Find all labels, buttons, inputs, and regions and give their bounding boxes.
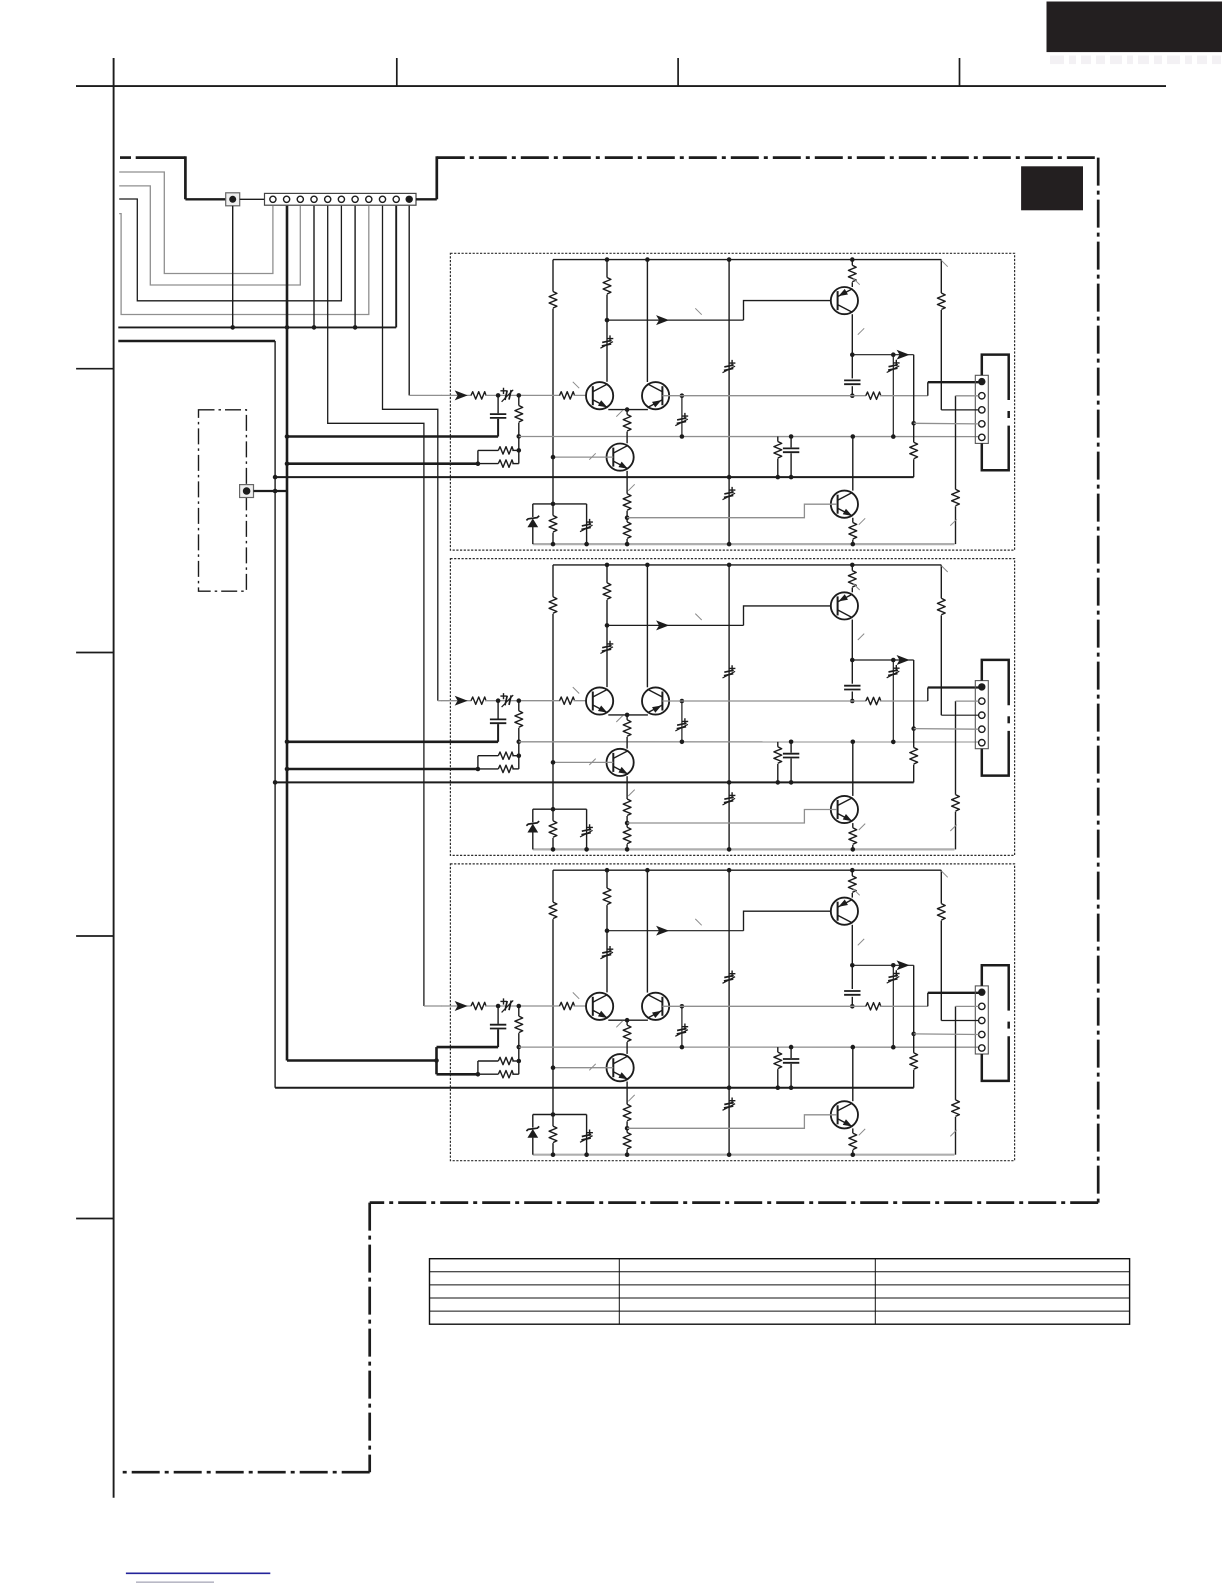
B2 junction VR2 bottom — [680, 740, 685, 745]
B2 thick wire to connector pin1 — [928, 686, 982, 688]
B2 zener diode D1 — [532, 809, 534, 822]
transistor Q1 block3 — [586, 993, 613, 1020]
B3 junction mid rail R16 — [776, 1085, 781, 1090]
B2 junction on pin2 bus (lower) — [285, 767, 290, 772]
B2 junction C2 bottom on output line — [850, 699, 855, 704]
B1 junction emitters — [625, 407, 630, 412]
B1 output connector pin1 (filled) — [978, 378, 985, 385]
left registration tick 3 — [76, 935, 114, 937]
B1 thermistor TH4 riser — [892, 355, 894, 437]
B1 bottom negative rail — [533, 543, 955, 545]
B3 resistor R9 (feedback upper) — [498, 1057, 513, 1064]
B1 junction Q5 base node — [625, 515, 630, 520]
B2 junction mid rail bias col — [727, 780, 732, 785]
pin9 vertical wire — [383, 206, 438, 701]
B2 rail junction Q5 col — [851, 847, 856, 852]
B3 output connector pin3 — [979, 1017, 985, 1023]
B2 resistor R3 (Q4 emitter) — [851, 565, 853, 571]
pin2 main vertical bus wire (thick) — [286, 206, 289, 1061]
B3 junction R6/feedback line — [517, 1045, 522, 1050]
B3 junction VR2 bottom — [680, 1045, 685, 1050]
B3 junction mid rail C3 — [789, 1085, 794, 1090]
B2 wire Q3 emitter down — [626, 776, 628, 799]
B2 wire VAS to lower network — [913, 660, 915, 748]
wire from outline to terminal box — [185, 198, 225, 200]
supply bus vertical wire (mid-rail feed) — [274, 341, 276, 1088]
B1 trimmer VR2 riser — [681, 396, 683, 437]
B2 resistor R14 (output series) — [866, 697, 881, 704]
transistor Q5 block1 — [831, 491, 858, 518]
B3 print artifacts (small ticks) — [573, 871, 957, 1136]
B2 junction Q1 collector / mirror line — [605, 623, 610, 628]
B1 junction input/C1 — [496, 393, 501, 398]
B1 output connector pin4 — [979, 421, 985, 427]
B1 wire pin3 to supply column — [941, 409, 978, 411]
B1 rail junction R8 col — [551, 542, 556, 547]
B1 thermistor TH3 lower on bias chain — [729, 487, 736, 493]
B2 input signal wire with arrow — [441, 700, 471, 702]
B2 junction R6/feedback line — [517, 739, 522, 744]
B3 junction arrow/thermistor col — [891, 963, 896, 968]
B3 resistor R7 (base stopper) — [560, 1002, 575, 1009]
transistor Q3 block2 — [607, 749, 634, 776]
B2 wire pin3 to supply column — [941, 714, 978, 716]
B1 zobel capacitor C3 — [790, 437, 792, 448]
B3 thermistor TH4 riser — [892, 965, 894, 1047]
B3 junction mid rail bias col — [727, 1085, 732, 1090]
B2 junction box top — [551, 807, 556, 812]
board outline dash-dot bottom left edge — [118, 1471, 370, 1474]
B2 resistor R17 (Q5 emitter) — [852, 823, 854, 828]
B3 junction Q3 base / R1 column — [551, 1065, 556, 1070]
B1 feedback/speaker sense line to pin5 — [519, 436, 982, 438]
B2 resistor R1 (left supply dropper) — [552, 565, 554, 597]
B1 wire Q2 collector to rail — [646, 260, 648, 382]
B1 resistor R13 (Q3 emitter lower) — [623, 522, 631, 539]
B1 rail junction Q5 col — [851, 542, 856, 547]
board outline dash-dot top edge — [437, 156, 1098, 159]
B3 wire pin4 to VAS column — [914, 1033, 979, 1036]
B1 wire current-mirror with arrow — [607, 319, 744, 321]
B1 resistor R1 (left supply dropper) — [552, 260, 554, 292]
B3 feedback left node riser — [477, 1061, 479, 1074]
top registration tick 3 — [959, 58, 961, 86]
B1 wire R5 to Q1 base — [485, 394, 560, 396]
wire terminal box to connector CN1 — [240, 198, 265, 200]
B1 wire Q3 base from left column — [553, 456, 613, 458]
B1 capacitor C2 (Q4 compensation) — [851, 355, 853, 379]
B3 wire mirror step up to Q4 base — [744, 911, 838, 931]
B3 speaker return bracket (thick) — [982, 965, 1009, 1010]
B3 protection box top wire — [533, 1114, 587, 1116]
wire pin6 to left edge (nested loop 3) — [119, 199, 341, 301]
B2 junction Q3 base / R1 column — [551, 760, 556, 765]
B3 rail junction Q4 col — [850, 868, 855, 873]
B1 junction TH4 bottom — [891, 434, 896, 439]
B1 junction C2 bottom on output line — [850, 393, 855, 398]
B1 junction on pin2 bus (lower) — [285, 461, 290, 466]
B2 junction arrow/thermistor col — [891, 658, 896, 663]
B3 resistor R8 (in box column) — [549, 1126, 557, 1142]
B1 junction mid rail bias col — [727, 475, 732, 480]
B1 thick feedback wire from bus (upper) — [287, 435, 498, 438]
B3 junction feedback left node — [476, 1072, 481, 1077]
pin11 vertical wire (input ch1) — [408, 206, 410, 396]
B3 resistor R18 (pin2 shunt) — [955, 1006, 957, 1100]
B1 wire Q2 base lead — [662, 395, 682, 397]
B1 rail junction bias col — [727, 542, 732, 547]
B3 wire Q3 emitter down — [626, 1082, 628, 1105]
bus junction at pin2 column — [285, 325, 290, 330]
amplifier block 3 dashed border — [450, 864, 1014, 1161]
B2 output connector pin5 — [979, 740, 985, 746]
B2 junction feedback left node — [476, 767, 481, 772]
B2 wire Q3 base from left column — [553, 761, 613, 763]
B2 trimmer VR2 riser — [681, 701, 683, 742]
B3 junction emitters — [625, 1018, 630, 1023]
B3 wire current-mirror with arrow — [607, 930, 744, 932]
connector CN1 pin 3 — [297, 196, 303, 202]
B2 wire R5 to Q1 base — [485, 700, 560, 702]
amplifier block 1 dashed border — [450, 253, 1014, 550]
B1 resistor R8 (in box column) — [549, 516, 557, 533]
junction J2 wire / mid-rail feed — [273, 489, 278, 494]
B1 mid output rail (thick) — [275, 476, 914, 478]
B2 wire current-mirror with arrow — [607, 624, 744, 626]
B1 rail junction Q2 col — [645, 257, 650, 262]
revision table column line 2 — [874, 1259, 876, 1325]
B3 junction C3 top — [789, 1045, 794, 1050]
B2 resistor R15 (VAS load) — [910, 748, 918, 765]
wire pin1 to left edge (nested loop 1) — [119, 172, 273, 274]
B3 junction Q1 collector / mirror line — [605, 928, 610, 933]
B3 junction TH4 bottom — [891, 1045, 896, 1050]
transistor Q5 block2 — [831, 796, 858, 823]
B2 wire mirror step up to Q4 base — [744, 606, 838, 626]
B2 resistor R7 (base stopper) — [560, 697, 575, 704]
B2 rail junction bias col — [727, 847, 732, 852]
B2 trimmer VR1 on input node — [500, 693, 506, 699]
B2 wire Q5 collector up to sense line — [852, 741, 854, 796]
B2 junction Q5 collector on sense line — [851, 740, 856, 745]
B2 thermistor TH4 riser — [892, 660, 894, 742]
B2 protection box top wire — [533, 808, 587, 810]
ground bus horizontal wire — [118, 326, 396, 328]
B1 junction Q3 base / R1 column — [551, 455, 556, 460]
B1 wire pin2 to shunt column — [956, 395, 979, 397]
block2 input corner wire from pin9 — [438, 700, 442, 702]
B1 wire pin4 to VAS column — [914, 422, 979, 425]
B3 input signal wire with arrow — [441, 1005, 471, 1007]
B2 junction C3 top — [789, 740, 794, 745]
B3 zobel resistor R16 — [777, 1047, 779, 1052]
B2 resistor R10 (feedback lower) — [498, 765, 513, 772]
B3 VAS output wire with arrow — [852, 964, 913, 966]
B1 thick feedback wire from bus (lower) — [287, 462, 478, 465]
left registration tick 2 — [76, 652, 114, 654]
B2 bias chain vertical wire — [728, 565, 730, 850]
B2 output line to pin1 jog — [880, 700, 928, 702]
B2 wire pin4 to VAS column — [914, 728, 979, 731]
connector CN1 pin 9 — [379, 196, 385, 202]
B1 resistor R3 (Q4 emitter) — [851, 260, 853, 266]
B1 junction feedback left node — [476, 461, 481, 466]
B1 capacitor C1 (input) — [497, 395, 499, 413]
transistor Q1 block1 — [586, 382, 613, 409]
B1 resistor R15 (VAS load) — [910, 442, 918, 459]
connector CN1 pin 8 — [366, 196, 372, 202]
page border vertical rule left — [113, 58, 115, 1498]
pin5 vertical wire — [328, 206, 424, 1006]
B3 resistor R12 (Q3 emitter upper) — [623, 1104, 631, 1120]
B2 resistor R9 (feedback upper) — [498, 752, 513, 759]
B2 resistor R18 (pin2 shunt) — [955, 701, 957, 795]
B1 protection box top wire — [533, 503, 587, 505]
B2 junction on pin2 bus (upper) — [285, 740, 290, 745]
B2 thermistor TH2 upper on bias chain — [729, 665, 736, 671]
B2 resistor R5 (input series) — [471, 697, 486, 704]
B3 output line Q2 base to R14 — [682, 1005, 866, 1007]
B3 junction Q5 base node — [625, 1126, 630, 1131]
B1 resistor R6 (input shunt) — [518, 395, 520, 405]
B1 wire Q5 base step from Q3 emitter — [627, 504, 837, 518]
B2 resistor R4 (right supply column) — [940, 565, 942, 598]
B3 jog up to pin1 wire — [927, 993, 929, 1007]
sub-board dash-dot outline box — [199, 410, 247, 591]
B3 rail junction Q3 col — [625, 1152, 630, 1157]
B1 junction R6/feedback line — [517, 434, 522, 439]
block3 input corner wire from pin5 — [424, 1005, 442, 1007]
B1 resistor R11 (emitter tail) — [626, 410, 628, 415]
B1 trimmer VR3 — [586, 504, 588, 544]
B3 mid output rail (thick) — [275, 1087, 914, 1089]
B2 zobel capacitor C3 — [790, 742, 792, 753]
B3 capacitor C2 (Q4 compensation) — [851, 965, 853, 989]
B3 rail junction R8 col — [551, 1152, 556, 1157]
B3 wire VAS to lower network — [913, 965, 915, 1053]
B3 resistor R4 (right supply column) — [940, 870, 942, 903]
B3 resistor R13 (Q3 emitter lower) — [623, 1133, 631, 1149]
B1 wire Q4 collector down — [851, 314, 853, 355]
small black label box — [1022, 167, 1083, 210]
B1 rail junction VR3 col — [584, 542, 589, 547]
board outline dash-dot left drop — [368, 1203, 371, 1473]
B2 rail junction Q2 col — [645, 563, 650, 568]
B2 resistor R12 (Q3 emitter upper) — [623, 799, 631, 816]
transistor Q3 block1 — [607, 444, 634, 471]
B2 junction pin4 line — [911, 726, 916, 731]
board outline corner up right of connector — [435, 156, 438, 199]
B3 trimmer VR3 — [586, 1115, 588, 1155]
B2 wire Q5 base step from Q3 emitter — [627, 810, 837, 824]
terminal box J1 (left of connector) — [226, 193, 240, 206]
B2 rail junction R8 col — [551, 847, 556, 852]
connector CN1 pin 11 (filled) — [406, 196, 413, 203]
B3 wire Q3 base from left column — [553, 1067, 613, 1069]
B1 thick wire to connector pin1 — [928, 381, 982, 383]
terminal J2 solder dot — [243, 487, 251, 495]
B3 resistor R3 (Q4 emitter) — [851, 870, 853, 876]
B3 resistor R17 (Q5 emitter) — [852, 1128, 854, 1133]
B2 output connector pin3 — [979, 712, 985, 718]
B1 zener diode D1 — [532, 504, 534, 517]
B2 trimmer VR3 — [586, 809, 588, 849]
B1 junction mid rail at feed column — [273, 475, 278, 480]
B3 wire Q2 collector to rail — [646, 870, 648, 992]
B1 emitter coupling wire Q1-Q2 — [608, 409, 648, 411]
B1 wire mirror step up to Q4 base — [744, 301, 838, 321]
B2 junction feedback resistor node — [517, 753, 522, 758]
B1 resistor R14 (output series) — [866, 392, 881, 399]
B1 junction VR2 bottom — [680, 434, 685, 439]
connector CN1 pin 5 — [325, 196, 331, 202]
B1 junction Q5 collector on sense line — [851, 434, 856, 439]
revision table column line 1 — [618, 1259, 620, 1325]
B3 output connector pin5 — [979, 1045, 985, 1051]
B3 thick feedback wire (lower) — [437, 1073, 478, 1076]
B3 rail junction Q5 col — [851, 1152, 856, 1157]
page top horizontal rule — [76, 85, 1166, 87]
B3 capacitor C1 (input) — [497, 1006, 499, 1024]
B3 thick wire to connector pin1 — [928, 992, 982, 994]
B3 thermistor TH2 upper on bias chain — [729, 971, 736, 977]
bus junction at pin7 column — [353, 325, 358, 330]
B3 junction Q4 collector node — [850, 963, 855, 968]
B2 VAS output wire with arrow — [852, 659, 913, 661]
B2 resistor R13 (Q3 emitter lower) — [623, 827, 631, 844]
B2 rail junction VR3 col — [584, 847, 589, 852]
wire terminal J1 down to bus — [232, 206, 234, 328]
wire pin4 down to bus — [313, 206, 315, 328]
B2 feedback left node riser — [477, 756, 479, 769]
footer hyperlink underline (blue) — [126, 1572, 270, 1574]
connector CN1 strip body — [265, 193, 417, 205]
wire terminal J2 to pin2 bus — [254, 490, 288, 492]
B2 thermistor TH3 lower on bias chain — [729, 792, 736, 798]
B1 resistor R4 (right supply column) — [940, 260, 942, 293]
B2 junction TH4 bottom — [891, 740, 896, 745]
B3 thermistor TH3 lower on bias chain — [729, 1098, 736, 1104]
B1 resistor R12 (Q3 emitter upper) — [623, 494, 631, 511]
top registration tick 1 — [396, 58, 398, 86]
wire pin8 to left edge (nested loop 4) — [119, 206, 369, 315]
B3 rail junction R1 col — [605, 868, 610, 873]
B2 rail junction Q4 col — [850, 563, 855, 568]
board outline dash-dot bottom edge — [370, 1201, 1098, 1204]
B3 wire Q4 collector down — [851, 925, 853, 966]
B2 output connector pin1 (filled) — [978, 683, 985, 690]
board outline corner down to connector wire — [184, 156, 187, 199]
B3 wire Q2 base lead — [662, 1005, 682, 1007]
B3 output connector pin1 (filled) — [978, 989, 985, 996]
B1 junction pin4 line — [911, 421, 916, 426]
B3 output line to pin1 jog — [880, 1005, 928, 1007]
B3 output connector pin4 — [979, 1031, 985, 1037]
B1 resistor R5 (input series) — [471, 392, 486, 399]
B2 rail junction R1 col — [605, 563, 610, 568]
faint ghost text under title box — [1050, 56, 1224, 65]
B1 positive supply rail — [553, 259, 941, 261]
board outline dash-dot right edge — [1097, 158, 1100, 1203]
B1 bias chain vertical wire — [728, 260, 730, 544]
B1 speaker return bracket (thick) — [982, 355, 1009, 400]
connector CN1 pin 10 — [393, 196, 399, 202]
B2 print artifacts (small ticks) — [573, 566, 957, 831]
B3 rail junction Q2 col — [645, 868, 650, 873]
B2 junction input/C1 — [496, 698, 501, 703]
revision table outer border — [430, 1259, 1130, 1325]
connector CN1 pin 1 — [270, 196, 276, 202]
B2 junction Q2 base node — [680, 699, 685, 704]
B3 junction input/R6 — [517, 1004, 522, 1009]
B2 rail junction bias col — [727, 563, 732, 568]
B1 print artifacts (small ticks) — [573, 260, 957, 525]
B1 resistor R9 (feedback upper) — [498, 447, 513, 454]
B1 resistor R10 (feedback lower) — [498, 460, 513, 467]
B2 output connector pin2 — [979, 698, 985, 704]
bus junction at pin4 column — [312, 325, 317, 330]
B1 thermistor TH1 on collector column — [607, 335, 614, 341]
B1 output connector strip body — [975, 375, 988, 443]
B2 bottom negative rail — [533, 848, 955, 850]
B2 junction mid rail R16 — [776, 780, 781, 785]
B3 output connector strip body — [975, 986, 988, 1054]
B3 junction Q2 base node — [680, 1004, 685, 1009]
B2 wire Q2 base lead — [662, 700, 682, 702]
B1 output line to pin1 jog — [880, 395, 928, 397]
B1 wire Q3 emitter down — [626, 471, 628, 494]
transistor Q3 block3 — [607, 1054, 634, 1081]
wire pin3 to left edge (nested loop 2) — [119, 186, 300, 285]
B1 output connector pin3 — [979, 407, 985, 413]
transistor Q4 block3 — [831, 898, 858, 925]
B2 junction Q5 base node — [625, 821, 630, 826]
amplifier block 2 dashed border — [450, 559, 1014, 856]
transistor Q1 block2 — [586, 687, 613, 714]
B2 junction emitters — [625, 713, 630, 718]
B2 wire pin2 to shunt column — [956, 700, 979, 702]
B3 junction box top — [551, 1112, 556, 1117]
transistor Q4 block2 — [831, 592, 858, 619]
transistor Q5 block3 — [831, 1101, 858, 1128]
B2 jog up to pin1 wire — [927, 688, 929, 702]
B3 resistor R11 (emitter tail) — [626, 1020, 628, 1025]
B3 resistor R5 (input series) — [471, 1002, 486, 1009]
B1 junction mid rail C3 — [789, 475, 794, 480]
B2 capacitor C2 (Q4 compensation) — [851, 660, 853, 684]
B3 junction Q5 collector on sense line — [851, 1045, 856, 1050]
B1 junction input/R6 — [517, 393, 522, 398]
connector CN1 pin 7 — [352, 196, 358, 202]
B3 thermistor TH1 on collector column — [607, 946, 614, 952]
B3 trimmer VR1 on input node — [500, 998, 506, 1004]
B3 resistor R10 (feedback lower) — [498, 1071, 513, 1078]
B1 rail junction R1 col — [605, 257, 610, 262]
B3 wire Q5 collector up to sense line — [852, 1046, 854, 1101]
B3 thick feedback bus jog horizontal — [287, 1059, 437, 1062]
B1 junction on pin2 bus (upper) — [285, 434, 290, 439]
B3 resistor R15 (VAS load) — [910, 1053, 918, 1069]
left registration tick 4 — [76, 1218, 114, 1220]
B2 wire Q4 collector down — [851, 620, 853, 661]
transistor Q2 block3 — [642, 993, 669, 1020]
B2 resistor R11 (emitter tail) — [626, 715, 628, 720]
terminal box J2 — [240, 485, 254, 498]
B2 positive supply rail — [553, 564, 941, 566]
B3 trimmer VR2 riser — [681, 1006, 683, 1047]
B1 output line Q2 base to R14 — [682, 395, 866, 397]
B1 rail junction Q4 col — [850, 257, 855, 262]
